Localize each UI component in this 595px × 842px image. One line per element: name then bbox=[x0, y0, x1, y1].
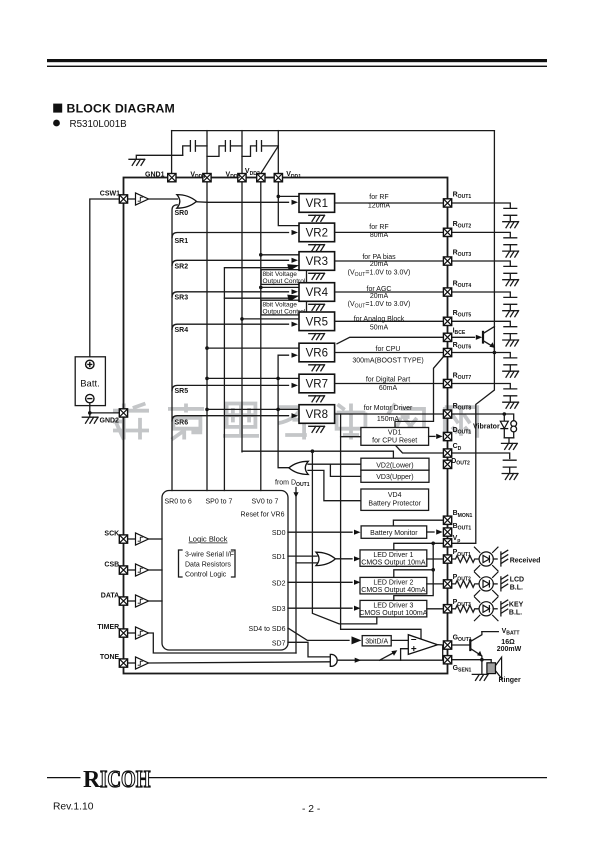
svg-text:SR4: SR4 bbox=[175, 327, 189, 334]
block LED Driver 2 bbox=[360, 577, 427, 594]
VDD3 riser (top) bbox=[241, 131, 243, 174]
wire SD1 to OR gate bbox=[288, 555, 317, 557]
regulator VR8 bbox=[299, 405, 335, 424]
wire TIMER to node bbox=[149, 633, 297, 653]
svg-text:SR3: SR3 bbox=[175, 295, 189, 302]
buffer U3b (DATA) bbox=[136, 595, 149, 607]
bracket right bbox=[232, 550, 236, 577]
wire VR3 output bbox=[335, 260, 443, 262]
ground bbox=[503, 340, 519, 346]
ground under VR2 bbox=[309, 245, 325, 251]
ground bbox=[503, 251, 519, 257]
ground bbox=[503, 280, 519, 286]
resistor at POUT1 bbox=[452, 556, 479, 563]
wire vibrator bottom bbox=[504, 438, 513, 444]
svg-text:for Motor Driver: for Motor Driver bbox=[364, 405, 413, 412]
node boost-VR8 bbox=[276, 408, 280, 412]
buffer U5 (TONE) bbox=[136, 657, 149, 669]
node VDD4-VR7 bbox=[205, 377, 209, 381]
wire ROUT6 to cap bbox=[452, 353, 510, 358]
or-gate SD1 bbox=[316, 552, 335, 565]
svg-text:SP0 to 7: SP0 to 7 bbox=[206, 499, 233, 506]
wire VD1 to DOUT1 bbox=[429, 435, 435, 437]
wire ROUT5 to cap bbox=[452, 321, 510, 326]
svg-text:60mA: 60mA bbox=[379, 385, 398, 392]
wire to VD1 input bbox=[341, 436, 361, 438]
resistor at POUT2 bbox=[452, 581, 479, 588]
wire SR1 to VR bbox=[172, 233, 289, 238]
svg-text:BLOCK DIAGRAM: BLOCK DIAGRAM bbox=[67, 102, 175, 116]
block VD2 VD3 bbox=[361, 458, 429, 482]
wire VR8 output bbox=[335, 413, 443, 415]
watermark bbox=[113, 404, 477, 440]
return bar at POUT3 bbox=[501, 600, 508, 616]
capacitor at ROUT4 bbox=[504, 297, 517, 310]
node sense-LED3 branch bbox=[311, 449, 315, 453]
svg-text:CSB: CSB bbox=[104, 561, 119, 568]
block LED Driver 3 bbox=[360, 600, 427, 617]
wire OR to LED driver 1 bbox=[335, 558, 352, 560]
title bullet square bbox=[53, 104, 62, 113]
svg-text:VD1: VD1 bbox=[388, 430, 402, 437]
wire ROUT2 to cap bbox=[452, 232, 510, 237]
wire VD1 to CD pin bbox=[396, 446, 443, 453]
regulator VR7 bbox=[299, 374, 335, 393]
pin VDD3 bbox=[238, 174, 246, 182]
capacitor at CD bbox=[503, 460, 516, 473]
wire feedback rail bbox=[380, 646, 443, 661]
wire CSW1 to buffer bbox=[128, 198, 135, 200]
capacitor at ROUT2 bbox=[504, 238, 517, 251]
svg-text:SV0 to 7: SV0 to 7 bbox=[252, 499, 279, 506]
regulator VR4 bbox=[299, 283, 335, 302]
buffer U2 (SCK) bbox=[136, 533, 149, 545]
wire buffer to logic block bbox=[149, 538, 163, 540]
wire VDD3 riser internal bbox=[241, 182, 243, 452]
wire VBATT bbox=[482, 631, 498, 633]
pin BMON1 bbox=[443, 516, 451, 524]
logic block bbox=[162, 491, 288, 651]
svg-text:20mA: 20mA bbox=[370, 261, 389, 268]
svg-text:SD7: SD7 bbox=[272, 640, 286, 647]
wire VR7 output bbox=[335, 383, 443, 385]
or-gate VD detect bbox=[289, 461, 308, 474]
node vibrator bbox=[503, 412, 507, 416]
wire DATA to buffer bbox=[128, 600, 135, 602]
resistor at POUT3 bbox=[452, 605, 479, 612]
svg-text:LED Driver 2: LED Driver 2 bbox=[373, 580, 413, 587]
node VDD2-VR3 bbox=[259, 253, 263, 257]
wire buffer to logic block bbox=[149, 600, 163, 602]
svg-text:SD0: SD0 bbox=[272, 530, 286, 537]
svg-text:Received: Received bbox=[510, 557, 541, 564]
pin DOUT2 bbox=[443, 460, 451, 468]
pin DOUT1 bbox=[443, 432, 451, 440]
wire ROUT4 to cap bbox=[452, 292, 510, 297]
svg-text:80mA: 80mA bbox=[370, 232, 389, 239]
svg-text:Reset for VR6: Reset for VR6 bbox=[241, 512, 285, 519]
watermark bbox=[113, 404, 149, 440]
svg-text:VR7: VR7 bbox=[306, 379, 328, 391]
pin ROUT3 bbox=[443, 257, 451, 265]
pin ROUT2 bbox=[443, 228, 451, 236]
buffer U1 (CSW1) bbox=[136, 193, 149, 205]
wire VD3 to gate bbox=[330, 464, 361, 476]
svg-text:Battery Protector: Battery Protector bbox=[368, 501, 421, 508]
wire ROUT7 to cap bbox=[452, 384, 510, 389]
wire VR6 output bbox=[335, 352, 443, 354]
pin GND2 bbox=[119, 409, 127, 417]
ground under VR3 bbox=[309, 273, 325, 279]
svg-text:VR8: VR8 bbox=[306, 409, 328, 421]
return bar at POUT1 bbox=[501, 550, 508, 566]
svg-text:R5310L001B: R5310L001B bbox=[70, 119, 128, 130]
wire VDD4 riser internal bbox=[206, 182, 208, 490]
block LED Driver 1 bbox=[360, 550, 427, 566]
ground under VR5 bbox=[309, 334, 325, 340]
block battery monitor bbox=[361, 526, 427, 538]
pin CSW1 bbox=[119, 195, 127, 203]
svg-text:VR3: VR3 bbox=[306, 256, 328, 268]
wire VR5 output bbox=[335, 320, 443, 322]
svg-text:120mA: 120mA bbox=[368, 202, 391, 209]
svg-text:50mA: 50mA bbox=[370, 324, 389, 331]
svg-text:3-wire Serial I/F: 3-wire Serial I/F bbox=[185, 552, 234, 559]
svg-text:CMOS Output 10mA: CMOS Output 10mA bbox=[361, 560, 426, 567]
block 3bitD/A bbox=[362, 636, 391, 646]
wire SR4 to VR bbox=[172, 324, 289, 329]
wire SP bus to VR4 control bbox=[224, 297, 288, 299]
wire SR0 vertical from logic bbox=[172, 205, 177, 491]
pin POUT1 bbox=[443, 555, 451, 563]
boost rail right: down to Vp bbox=[452, 131, 494, 544]
regulator VR3 bbox=[299, 252, 335, 271]
VDD4 riser (top) bbox=[206, 131, 208, 174]
svg-text:for Analog Block: for Analog Block bbox=[354, 316, 405, 323]
svg-text:ICOH: ICOH bbox=[100, 766, 151, 793]
wire ROUT6 sense to VD1 bbox=[395, 356, 444, 428]
bullet circle bbox=[53, 120, 60, 127]
svg-text:VR5: VR5 bbox=[306, 317, 328, 329]
LED at POUT2 bbox=[474, 572, 498, 597]
svg-text:for RF: for RF bbox=[369, 194, 388, 201]
wire BMON1 to box top bbox=[393, 520, 442, 526]
box 8bit voltage output control (VR3) bbox=[261, 270, 306, 285]
svg-text:16Ω: 16Ω bbox=[501, 639, 515, 646]
ground bbox=[503, 402, 519, 408]
svg-text:LCD: LCD bbox=[510, 577, 524, 584]
svg-text:for RF: for RF bbox=[369, 224, 388, 231]
pin VDD2 bbox=[257, 174, 265, 182]
pin TONE bbox=[119, 659, 127, 667]
wire SR2 to VR bbox=[172, 260, 289, 265]
svg-text:R: R bbox=[83, 767, 101, 793]
svg-text:for CPU Reset: for CPU Reset bbox=[372, 438, 417, 445]
node boost-VR7 bbox=[276, 377, 280, 381]
pin SCK bbox=[119, 535, 127, 543]
pin VP bbox=[443, 539, 451, 547]
wire TIMER to buffer bbox=[128, 632, 135, 634]
pin POUT2 bbox=[443, 580, 451, 588]
ground vibrator bbox=[502, 443, 518, 449]
wire GSEN1 to speaker bbox=[452, 660, 491, 663]
wire LED Driver 1 output bbox=[427, 558, 443, 560]
switch blade bbox=[380, 653, 394, 660]
wire battery monitor to BOUT1 bbox=[427, 531, 434, 533]
IC outer box bbox=[124, 178, 448, 674]
wire VDD1 riser internal bbox=[278, 182, 298, 225]
wire ROUT3 to cap bbox=[452, 261, 510, 266]
footer rule bbox=[47, 777, 547, 779]
or-gate SR0 bbox=[177, 195, 197, 209]
capacitor C1 bbox=[183, 141, 207, 156]
svg-text:VR4: VR4 bbox=[306, 287, 329, 299]
svg-text:3bitD/A: 3bitD/A bbox=[365, 638, 388, 645]
capacitor at ROUT7 bbox=[504, 389, 517, 402]
wire CD to cap bbox=[452, 453, 510, 459]
svg-text:for CPU: for CPU bbox=[376, 346, 401, 353]
pin VDD4 bbox=[203, 174, 211, 182]
capacitor at ROUT3 bbox=[504, 266, 517, 279]
svg-text:SR5: SR5 bbox=[175, 388, 189, 395]
wire SD2 to LED driver 2 bbox=[288, 581, 352, 583]
wire SP bus to VR3 control bbox=[224, 268, 288, 491]
svg-text:LED Driver 3: LED Driver 3 bbox=[373, 603, 413, 610]
svg-text:200mW: 200mW bbox=[497, 646, 522, 653]
node VDD4-VR6 bbox=[205, 346, 209, 350]
svg-text:TONE: TONE bbox=[100, 654, 120, 661]
ground bbox=[503, 371, 519, 377]
pin CSB bbox=[119, 566, 127, 574]
regulator VR2 bbox=[299, 223, 335, 242]
wire AND output to switch bbox=[337, 659, 379, 661]
svg-text:VR2: VR2 bbox=[306, 228, 328, 240]
pin ROUT7 bbox=[443, 379, 451, 387]
ground bbox=[502, 474, 518, 480]
battery Batt. bbox=[75, 357, 105, 406]
svg-text:SR6: SR6 bbox=[175, 419, 189, 426]
inductor L1 (vibrator coil) bbox=[511, 421, 517, 438]
svg-text:Control Logic: Control Logic bbox=[185, 572, 227, 579]
wire sense line to VD2 bbox=[242, 451, 393, 458]
svg-text:SR1: SR1 bbox=[175, 238, 189, 245]
wire LED Driver 2 output bbox=[427, 583, 443, 585]
svg-text:LED Driver 1: LED Driver 1 bbox=[373, 552, 413, 559]
svg-text:for AGC: for AGC bbox=[367, 286, 392, 293]
pin ROUT8 bbox=[443, 410, 451, 418]
node VDD2-VR4 bbox=[259, 286, 263, 290]
node battery gnd bbox=[88, 411, 92, 415]
svg-text:VD2(Lower): VD2(Lower) bbox=[376, 462, 413, 469]
wire buffer to logic block bbox=[149, 569, 163, 571]
wire SCK to buffer bbox=[128, 538, 135, 540]
wire Vp distribution bbox=[394, 543, 443, 550]
svg-text:DATA: DATA bbox=[101, 593, 119, 600]
gnd wire top-left bbox=[136, 155, 182, 159]
svg-text:for Digital Part: for Digital Part bbox=[366, 376, 410, 383]
wire to OR SD1 input bbox=[296, 562, 317, 564]
op-amp U6 bbox=[408, 635, 437, 655]
VDD2 diagonal to VDD1 riser bbox=[261, 146, 279, 174]
wire SD4-6 to 3bitDA bbox=[288, 628, 349, 640]
block VD4 bbox=[361, 489, 429, 510]
ground ringer bbox=[472, 674, 488, 680]
wire VD4 to gate bbox=[308, 470, 361, 500]
wire SD3 to LED driver 3 bbox=[288, 607, 352, 609]
speaker (Ringer) bbox=[487, 657, 502, 678]
svg-text:TIMER: TIMER bbox=[97, 624, 119, 631]
svg-text:Logic Block: Logic Block bbox=[189, 535, 228, 544]
top ground rail bbox=[172, 130, 495, 132]
node Vp1 bbox=[431, 542, 435, 546]
pin ROUT5 bbox=[443, 317, 451, 325]
node: rail to ROUT6 bbox=[493, 351, 497, 355]
pin GOUT1 bbox=[443, 641, 451, 649]
svg-text:SD2: SD2 bbox=[272, 580, 286, 587]
svg-text:VR6: VR6 bbox=[306, 348, 328, 360]
ground GND2 bbox=[82, 417, 98, 423]
wire opamp plus input riser bbox=[401, 649, 409, 661]
svg-text:Ringer: Ringer bbox=[499, 677, 521, 684]
wire TONE to buffer bbox=[128, 662, 135, 664]
wire VR4 output bbox=[335, 291, 443, 293]
pin BOUT1 bbox=[443, 528, 451, 536]
svg-text:Vibrator: Vibrator bbox=[473, 424, 500, 431]
wire VDD2 riser internal bbox=[260, 182, 262, 490]
wire SD0 to battery monitor bbox=[288, 531, 352, 533]
pin GND1 bbox=[168, 174, 176, 182]
pin CD bbox=[443, 449, 451, 457]
bracket left bbox=[179, 550, 183, 577]
wire SR0 OR output to VR1 bbox=[197, 201, 289, 204]
svg-text:CMOS Output 100mA: CMOS Output 100mA bbox=[359, 610, 427, 617]
regulator VR5 bbox=[299, 312, 335, 331]
node VDD4-VR8 bbox=[205, 408, 209, 412]
header thin rule bbox=[47, 66, 547, 67]
svg-text:SR2: SR2 bbox=[175, 264, 189, 271]
pin ROUT4 bbox=[443, 288, 451, 296]
ground under VR8 bbox=[309, 426, 325, 432]
regulator VR1 bbox=[299, 194, 335, 213]
wire VD2 to gate bbox=[308, 463, 361, 465]
ground under VR7 bbox=[309, 396, 325, 402]
svg-text:Batt.: Batt. bbox=[80, 378, 100, 389]
wire battery minus to GND2 bbox=[90, 404, 119, 413]
svg-text:SD1: SD1 bbox=[272, 554, 286, 561]
pin POUT3 bbox=[443, 605, 451, 613]
wire VR1 output bbox=[335, 202, 443, 204]
svg-text:SD3: SD3 bbox=[272, 606, 286, 613]
svg-text:GND1: GND1 bbox=[145, 172, 165, 179]
pin ROUT1 bbox=[443, 199, 451, 207]
ground bbox=[503, 222, 519, 228]
LED at POUT3 bbox=[474, 597, 498, 622]
wire opamp output to GOUT1 bbox=[438, 644, 443, 646]
wire VR2 output bbox=[335, 231, 443, 233]
svg-text:- 2 -: - 2 - bbox=[302, 804, 320, 815]
transistor Q1 (boost) bbox=[452, 327, 495, 353]
wire buffer to OR gate bbox=[149, 198, 178, 200]
wire SR5 to VR bbox=[172, 385, 289, 390]
capacitor C2 bbox=[207, 141, 242, 157]
pin IBCE bbox=[443, 333, 451, 341]
wire emitter to ground bbox=[481, 660, 483, 675]
ground under VR6 bbox=[309, 365, 325, 371]
svg-text:VR1: VR1 bbox=[306, 198, 328, 210]
svg-text:SR0 to 6: SR0 to 6 bbox=[165, 499, 192, 506]
transistor Q2 (ringer drive) bbox=[452, 632, 482, 660]
capacitor at ROUT5 bbox=[504, 327, 517, 340]
wire IBCE to VR6 bbox=[337, 337, 443, 344]
svg-text:Data Resistors: Data Resistors bbox=[185, 562, 231, 569]
wire 3bitDA to opamp bbox=[391, 639, 408, 641]
svg-text:for PA bias: for PA bias bbox=[362, 254, 396, 261]
svg-text:CMOS Output 40mA: CMOS Output 40mA bbox=[361, 587, 426, 594]
box 8bit voltage output control (VR4) bbox=[261, 300, 306, 315]
svg-text:SR0: SR0 bbox=[175, 210, 189, 217]
capacitor at ROUT6 bbox=[504, 358, 517, 371]
pin ROUT6 bbox=[443, 348, 451, 356]
svg-text:300mA(BOOST TYPE): 300mA(BOOST TYPE) bbox=[352, 357, 423, 364]
pin GSEN1 bbox=[443, 656, 451, 664]
wire SD7 to AND gate bbox=[288, 642, 330, 657]
wire TONE to AND gate bbox=[149, 662, 331, 663]
GND1 riser bbox=[171, 131, 173, 174]
svg-text:SCK: SCK bbox=[104, 531, 119, 538]
svg-text:KEY: KEY bbox=[509, 602, 524, 609]
node VDD3-VR5 bbox=[240, 317, 244, 321]
wire branch to LED3 bbox=[312, 451, 376, 624]
node VDD1-VR1 bbox=[277, 195, 281, 199]
VDD1 riser (top) bbox=[277, 131, 279, 174]
svg-text:Battery Monitor: Battery Monitor bbox=[370, 530, 418, 537]
ground (top-left) bbox=[129, 159, 145, 165]
svg-text:SD4 to SD6: SD4 to SD6 bbox=[249, 626, 286, 633]
capacitor at ROUT1 bbox=[504, 208, 517, 221]
regulator VR6 bbox=[299, 343, 335, 362]
node emitter-GSEN1 bbox=[480, 658, 484, 662]
header thick rule bbox=[47, 59, 547, 62]
diode D1 (vibrator clamp) bbox=[500, 414, 508, 438]
svg-text:B.L.: B.L. bbox=[509, 610, 522, 617]
wire VR8 net to opamp bbox=[341, 414, 421, 639]
wire CSB to buffer bbox=[128, 569, 135, 571]
wire battery plus to CSW1 bbox=[90, 199, 119, 357]
pin DATA bbox=[119, 597, 127, 605]
and-gate TONE/SD7 bbox=[330, 654, 337, 666]
wire from DOUT1 vertical bbox=[295, 488, 297, 654]
node Vp2 bbox=[431, 568, 435, 572]
return bar at POUT2 bbox=[501, 575, 508, 591]
wire SR3 to VR bbox=[172, 292, 289, 297]
svg-text:20mA: 20mA bbox=[370, 293, 389, 300]
block VD1 bbox=[361, 428, 429, 446]
pin TIMER bbox=[119, 629, 127, 637]
wire ROUT8 to vibrator bbox=[452, 414, 514, 421]
ground under VR1 bbox=[309, 215, 325, 221]
buffer U3 (CSB) bbox=[136, 564, 149, 576]
LED at POUT1 bbox=[474, 547, 498, 572]
wire ROUT1 to cap bbox=[452, 203, 510, 208]
svg-text:VD4: VD4 bbox=[388, 492, 402, 499]
wire LED Driver 3 output bbox=[427, 608, 443, 610]
svg-text:GND2: GND2 bbox=[100, 418, 120, 425]
wire SR6 to VR bbox=[172, 416, 289, 421]
wire boost net vertical bbox=[278, 355, 290, 468]
buffer U4 (TIMER) bbox=[136, 627, 149, 639]
pin VDD1 bbox=[274, 174, 282, 182]
svg-text:B.L.: B.L. bbox=[510, 585, 523, 592]
